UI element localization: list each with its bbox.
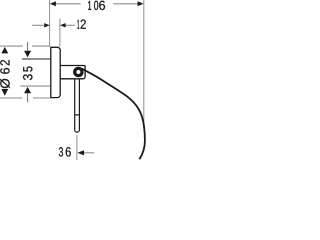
extension line plate front (12 dim) <box>59 19 61 47</box>
dim 36 extension (below rod) <box>76 135 78 160</box>
label 106 digit 0 <box>94 1 98 10</box>
label 35 digit 3 <box>23 74 32 80</box>
dimension line 12 <box>32 24 44 26</box>
extension 35 bottom <box>21 85 51 87</box>
arrow 35 bottom (pointing up) <box>24 87 31 93</box>
arrow 12 left (pointing right) <box>44 23 50 27</box>
label 12 digit 1 <box>77 20 79 29</box>
extension line diameter top <box>0 45 23 47</box>
label 106 digit 6 <box>99 1 105 10</box>
label 36 digit 6 <box>66 147 71 156</box>
arrow diameter top (pointing up) <box>1 47 8 54</box>
curved wire (swing arc) <box>82 69 145 160</box>
label 12 digit 2 <box>81 19 86 28</box>
wall plate (side view) <box>51 47 60 97</box>
arrow 36 (pointing left) <box>77 150 84 155</box>
arrow 35 top (pointing down) <box>24 51 31 58</box>
pivot arm housing <box>60 66 85 79</box>
arrow 106 right <box>138 1 144 6</box>
extension line left (wall / plate back) <box>49 0 51 47</box>
dim 35 upper leader <box>27 42 29 51</box>
label 62 digit 6 <box>0 68 9 74</box>
label 36 digit 3 <box>59 147 63 156</box>
extension line right (106 dim, wire tip) <box>143 0 145 128</box>
rod wire end tick <box>74 114 80 116</box>
dim 35 lower leader <box>27 93 29 102</box>
label 35 digit 5 <box>23 67 32 72</box>
dim 36 leader line <box>84 152 94 154</box>
label 106 digit 1 <box>88 1 91 10</box>
pivot circle <box>75 68 82 75</box>
label 62 digit 2 <box>0 60 9 65</box>
hanging rod (wire bar, side view) <box>75 79 80 132</box>
arrow diameter bottom (pointing down) <box>1 89 8 96</box>
dimension line 106 <box>56 3 81 5</box>
label diameter symbol <box>0 79 10 89</box>
extension line diameter bottom <box>0 97 23 99</box>
extension 35 top <box>22 58 50 60</box>
arrow 12 right (pointing left) <box>60 23 66 27</box>
arrow 106 left <box>50 1 56 6</box>
